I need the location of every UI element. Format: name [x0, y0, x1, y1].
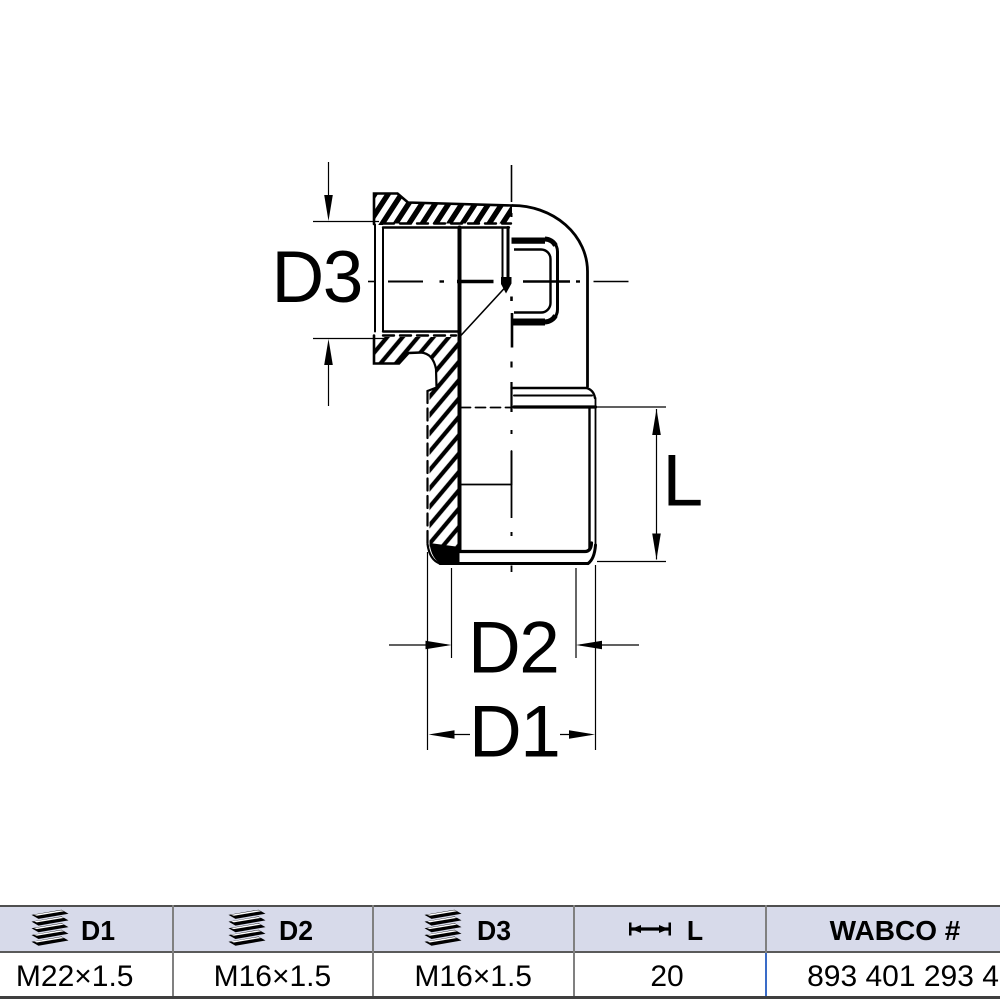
svg-text:D2: D2 [468, 608, 558, 689]
svg-text:L: L [663, 441, 702, 522]
svg-text:D3: D3 [272, 237, 362, 318]
svg-text:D1: D1 [469, 692, 559, 773]
